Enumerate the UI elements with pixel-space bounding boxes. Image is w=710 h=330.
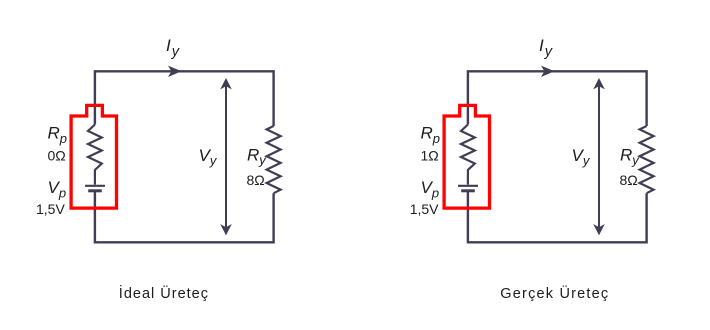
arrowhead V_y bottom, left circuit — [220, 224, 232, 235]
resistor R_p (1 ohm) zigzag, right circuit — [461, 125, 475, 185]
svg-text:0Ω: 0Ω — [48, 147, 66, 163]
arrowhead V_y bottom, right circuit — [593, 224, 605, 235]
wire: right circuit top+right upper loop — [468, 71, 647, 126]
battery V_p long plate, left circuit — [85, 185, 105, 187]
svg-text:Vy: Vy — [199, 146, 218, 168]
svg-text:8Ω: 8Ω — [620, 172, 638, 188]
svg-text:Ry: Ry — [247, 146, 267, 168]
svg-text:1,5V: 1,5V — [410, 201, 439, 217]
wire: V_y arrow shaft, left circuit — [225, 80, 227, 234]
arrowhead I_y current arrow, right circuit — [541, 66, 555, 77]
svg-text:Vy: Vy — [572, 146, 591, 168]
wire: V_y arrow shaft, right circuit — [598, 80, 600, 234]
resistor R_p (0 ohm) zigzag, left circuit — [88, 125, 102, 185]
svg-text:İdeal Üreteç: İdeal Üreteç — [119, 284, 209, 302]
svg-text:Rp: Rp — [48, 124, 68, 146]
svg-text:Gerçek Üreteç: Gerçek Üreteç — [500, 284, 609, 302]
svg-text:8Ω: 8Ω — [247, 172, 265, 188]
arrowhead I_y current arrow, left circuit — [168, 66, 182, 77]
svg-text:1Ω: 1Ω — [421, 147, 439, 163]
svg-text:Vp: Vp — [421, 178, 440, 200]
svg-text:Vp: Vp — [48, 178, 67, 200]
red source outline box, left circuit — [71, 105, 116, 208]
wire: left circuit top+right upper loop — [95, 71, 274, 126]
wire: left circuit bottom loop — [95, 191, 274, 243]
red source outline box, right circuit — [444, 105, 489, 208]
battery V_p short plate, right circuit — [461, 189, 475, 192]
svg-text:Iy: Iy — [539, 36, 553, 60]
resistor R_y (8 ohm) zigzag, left circuit — [267, 126, 281, 193]
svg-text:Iy: Iy — [166, 36, 180, 60]
arrowhead V_y top, left circuit — [220, 78, 232, 89]
wire: right circuit bottom loop — [468, 191, 647, 243]
battery V_p long plate, right circuit — [458, 185, 478, 187]
battery V_p short plate, left circuit — [88, 189, 102, 192]
svg-text:Ry: Ry — [620, 146, 640, 168]
svg-text:Rp: Rp — [421, 124, 441, 146]
resistor R_y (8 ohm) zigzag, right circuit — [640, 126, 654, 193]
arrowhead V_y top, right circuit — [593, 78, 605, 89]
svg-text:1,5V: 1,5V — [36, 201, 65, 217]
